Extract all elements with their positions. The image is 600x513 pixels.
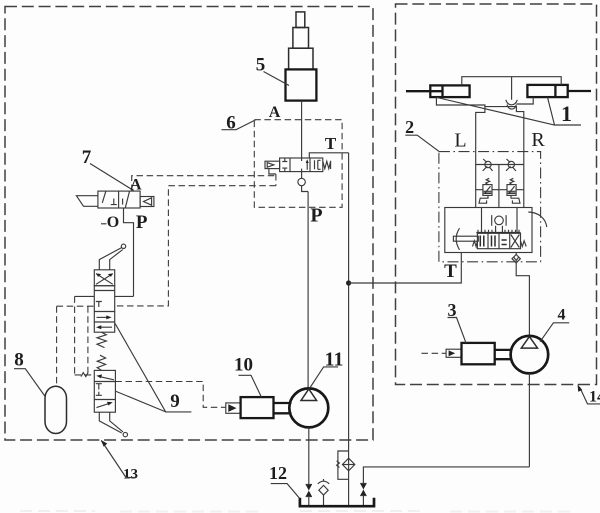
accumulator 8: [45, 386, 67, 433]
motor 10 input connector: [226, 403, 241, 413]
svg-text:9: 9: [170, 391, 180, 412]
valve 6 dashed block boundary: [254, 120, 342, 208]
pump 4: [511, 336, 549, 374]
oil tank 12: [300, 498, 374, 506]
svg-text:A: A: [130, 177, 142, 194]
squiggle on pilot line: [81, 373, 88, 377]
label 3: [448, 300, 467, 343]
spool rail hatching: [476, 230, 520, 233]
label O (valve 7): [101, 214, 119, 231]
pilot bus (dashed) to accumulator: [57, 305, 95, 307]
pilot wire: valve 9 to valve 6 (dashed): [115, 186, 276, 306]
steering linkage top bar: [462, 77, 561, 100]
svg-text:8: 8: [14, 350, 24, 371]
svg-text:P: P: [310, 205, 322, 227]
label 11: [310, 349, 344, 389]
svg-text:A: A: [269, 104, 281, 121]
label 2: [405, 117, 439, 152]
motor 3: [462, 343, 495, 364]
steering cylinder right (component 1): [527, 85, 591, 97]
pilot riser (dashed) left of stack: [74, 296, 76, 375]
tank breather cap: [318, 479, 329, 506]
check valve L: [483, 159, 493, 171]
label 9: [115, 323, 191, 412]
valve 6 return spring: [323, 161, 331, 169]
steering cylinder left (component 1): [406, 85, 470, 97]
relief valve R: [499, 178, 524, 203]
svg-text:5: 5: [256, 55, 266, 76]
relief valve L: [476, 178, 499, 203]
valve block body outline: [476, 107, 524, 208]
svg-text:O: O: [107, 214, 119, 231]
wire: pump 11 to tank shut-off valve: [308, 427, 310, 484]
wire T: valve 6 to T riser: [309, 153, 348, 158]
drive shaft 3-4: [495, 350, 512, 359]
label 1: [437, 97, 581, 126]
valve 9 upper: valve body: [94, 286, 114, 333]
svg-text:L: L: [454, 130, 466, 152]
label 14 with arrow to box border: [578, 384, 600, 405]
valve 9 upper: lever with roller: [99, 244, 125, 270]
valve 6 pilot box: [265, 161, 280, 168]
check valve R: [506, 159, 516, 171]
faint scan residue at bottom edge: [20, 510, 575, 513]
feedback arc (right): [528, 212, 547, 227]
valve 9 upper: spring: [97, 332, 106, 347]
steering wheel: [492, 215, 506, 233]
dashed enclosure box 13 (left unit): [5, 7, 373, 441]
pilot wire: valve 7 port A to valve 6 pilot (dashed): [132, 169, 276, 192]
steering unit outer rectangle: [445, 208, 532, 253]
valve 9 lower: valve body: [94, 370, 115, 412]
label 10: [234, 355, 261, 398]
svg-text:14: 14: [589, 389, 600, 406]
linkage lines below cylinders: [436, 97, 533, 107]
svg-text:6: 6: [226, 113, 236, 134]
label 12: [269, 463, 299, 498]
wire: pump 4 suction down: [528, 373, 530, 467]
label 7: [82, 147, 134, 191]
svg-text:P: P: [136, 212, 148, 233]
block center divider: [498, 165, 500, 208]
valve 9 upper: cam box: [94, 270, 114, 286]
drive shaft 10-11: [274, 403, 292, 413]
label 6: [222, 113, 256, 134]
valve 7 return spring box: [140, 197, 154, 207]
svg-text:2: 2: [405, 117, 414, 137]
block outlet check valve: [512, 253, 520, 263]
component 5 (proportional solenoid stack): [286, 12, 317, 101]
pilot wire: lower valve 9 to motor 10 (dashed): [115, 382, 225, 408]
svg-text:12: 12: [269, 463, 287, 483]
steering valve block 2: dash-dot boundary: [439, 152, 541, 262]
wire A: component 5 to valve 6: [301, 101, 303, 158]
wire: upper valve right port to valve 7 riser: [115, 295, 134, 297]
wire: valve 7 P port down to valve stack 9: [124, 208, 134, 296]
svg-text:T: T: [444, 261, 457, 282]
wire: upper valve left port: [75, 295, 95, 297]
valve 6 check valve: [298, 172, 308, 192]
svg-text:13: 13: [123, 467, 138, 483]
valve 7 manual wedge actuator: [76, 196, 98, 207]
valve 6 (3-way cartridge valve): [280, 158, 323, 172]
tank shut-off valve (right): [360, 484, 366, 507]
tank shut-off valve (left): [306, 485, 312, 507]
dashed enclosure box 14 (right unit): [396, 4, 597, 385]
label 8: [14, 350, 45, 397]
motor 10: [241, 397, 274, 418]
spool centering springs: [473, 241, 527, 247]
svg-text:R: R: [531, 129, 545, 151]
wire: T riser down to tank filter: [348, 153, 350, 459]
actuator plunger: [453, 228, 478, 250]
wire: block T port down and to junction: [349, 253, 462, 284]
valve 9 lower: lever: [99, 412, 127, 437]
valve 9 lower: spring on top: [97, 355, 105, 370]
pilot riser 2 (dashed): [87, 306, 89, 375]
svg-text:1: 1: [561, 101, 572, 126]
junction node on T riser: [346, 280, 351, 285]
accumulator riser (dashed): [56, 306, 58, 386]
tank filter: [342, 458, 354, 506]
pump 11: [289, 388, 328, 427]
label 13 with arrow to box border: [101, 440, 138, 483]
pilot line into lower valve (dashed): [75, 374, 95, 376]
linkage knuckle arcs: [506, 100, 518, 109]
wire P: valve 6 down to pump 11: [307, 192, 309, 389]
inner risers: [482, 208, 518, 233]
valve 7 (pneumatic 2-position valve): [98, 191, 140, 208]
svg-text:7: 7: [82, 147, 92, 168]
suction pipe from pump 4: [363, 467, 529, 484]
wire: pump 4 to block check valve: [516, 263, 529, 336]
filter bypass loop: [337, 451, 349, 479]
motor 3 input connector: [422, 349, 462, 357]
svg-text:10: 10: [234, 355, 253, 376]
label 4: [540, 307, 569, 342]
svg-text:T: T: [325, 134, 337, 153]
label 5: [256, 55, 289, 86]
check valve line in block: [476, 164, 524, 166]
svg-text:4: 4: [558, 307, 566, 324]
steering spool: [477, 233, 520, 248]
